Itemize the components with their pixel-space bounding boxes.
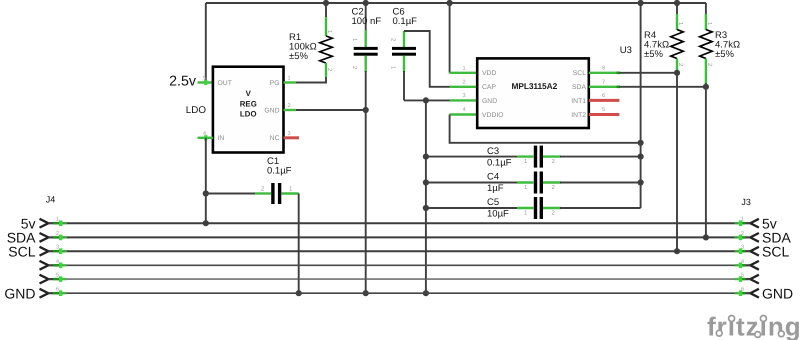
connector J3 pin 1 (735, 217, 759, 228)
pin LDO GND (green) (284, 109, 297, 111)
pin U3 GND (green) (450, 99, 478, 101)
svg-text:4: 4 (741, 259, 744, 265)
svg-text:0.1µF: 0.1µF (267, 166, 292, 177)
pin LDO PG (green) (284, 81, 297, 83)
junction 2.5V rail / VDD riser (447, 0, 453, 6)
junction 2.5V rail / column (638, 0, 644, 6)
svg-text:3: 3 (741, 245, 744, 251)
wire R4/SCL down to SCL bus (676, 73, 678, 251)
svg-text:1: 1 (741, 217, 744, 223)
svg-text:J3: J3 (741, 197, 751, 207)
junction SDA bus (703, 234, 709, 240)
pin LDO NC (red, unconnected) (284, 136, 300, 139)
svg-text:GND: GND (762, 285, 793, 301)
svg-text:5: 5 (602, 107, 605, 113)
wire LDO OUT to 2.5V rail (205, 3, 207, 83)
svg-text:3: 3 (463, 93, 466, 99)
resistor R1 (320, 3, 333, 77)
wire C6 bottom to GND net (403, 71, 405, 100)
junction C4 right (638, 179, 644, 185)
svg-text:4: 4 (463, 107, 466, 113)
pin U3 INT2 (red, unconnected) (589, 113, 620, 116)
wire SCL to R4 (619, 72, 677, 74)
svg-text:5: 5 (203, 76, 206, 82)
label C2 100 nF (352, 7, 382, 28)
junction SCL / R4 (674, 70, 680, 76)
U3 inner pin labels (482, 70, 586, 119)
pin U3 SDA (green) (589, 86, 620, 88)
wire R3/SDA down to SDA bus (705, 83, 707, 237)
svg-text:SCL: SCL (573, 70, 586, 77)
svg-text:GND: GND (482, 98, 497, 105)
svg-text:6: 6 (602, 93, 605, 99)
junction LDO GND / C2 (363, 107, 369, 113)
connector J4 pin 4 (40, 259, 68, 270)
wire 2.5V rail to chip VDD (449, 3, 451, 73)
label C6 0.1uF (393, 7, 418, 28)
capacitor C3 (426, 146, 641, 168)
svg-text:C5: C5 (487, 197, 499, 208)
capacitor C5 (426, 197, 641, 219)
wire SDA bus (62, 236, 739, 238)
label C3 0.1&#181;F (487, 146, 512, 169)
pin U3 INT1 (red, unconnected) (589, 99, 620, 102)
svg-text:2.5v: 2.5v (169, 73, 197, 89)
LDO inner pin labels (218, 80, 280, 142)
svg-text:1µF: 1µF (487, 183, 504, 194)
junction GND bus / C2 (363, 290, 369, 296)
junction GND bus / GND column (423, 290, 429, 296)
label C1 0.1uF (267, 156, 292, 177)
svg-text:SCL: SCL (8, 243, 35, 259)
connector J3 pin 4 (735, 259, 759, 270)
wire SCL bus (62, 250, 739, 252)
junction SCL bus (674, 248, 680, 254)
wire PG to R1 bottom (296, 76, 326, 83)
svg-text:REG: REG (240, 99, 257, 108)
pin U3 VDDIO (green) (450, 113, 478, 115)
svg-text:INT1: INT1 (571, 98, 586, 105)
svg-text:INT2: INT2 (571, 112, 586, 119)
label R1 100k&#937; &#177;5% (289, 32, 317, 62)
svg-text:OUT: OUT (218, 80, 232, 87)
junction C4 left (423, 179, 429, 185)
junction 2.5V rail / R4 (674, 0, 680, 6)
pin LDO IN (green) (198, 137, 213, 139)
svg-text:100 nF: 100 nF (352, 16, 382, 27)
svg-text:5: 5 (56, 273, 59, 279)
junction C3 right (638, 154, 644, 160)
svg-text:C4: C4 (487, 172, 499, 183)
junction 2.5V rail / C2 (363, 0, 369, 6)
connector J3 pin 5 (735, 273, 759, 284)
svg-text:0.1µF: 0.1µF (393, 16, 418, 27)
svg-text:IN: IN (218, 135, 225, 142)
wire GND bus (62, 292, 739, 294)
J3 / bus labels right (762, 215, 793, 301)
connector J3 pin 2 (735, 231, 759, 242)
svg-text:±5%: ±5% (644, 49, 663, 60)
svg-text:U3: U3 (620, 45, 632, 56)
pin U3 VDD (green) (450, 72, 478, 74)
J4 / bus labels left (4, 215, 36, 301)
connector J3 pin 3 (735, 245, 759, 256)
connector J4 pin 3 (40, 245, 68, 256)
voltage regulator U-LDO body (213, 67, 284, 153)
label V REG LDO (240, 89, 257, 118)
junction C5 left (423, 205, 429, 211)
wire C1 right down to GND bus (298, 194, 300, 294)
pin U3 SCL (green) (589, 72, 620, 74)
svg-text:NC: NC (270, 135, 280, 142)
svg-text:6: 6 (741, 287, 744, 293)
connector J4 pin 5 (40, 273, 68, 284)
svg-text:1: 1 (288, 76, 291, 82)
resistor R3 (700, 3, 713, 84)
svg-text:2: 2 (463, 80, 466, 86)
junction 5v bus / LDO IN (203, 220, 209, 226)
connector J4 pin 6 (40, 287, 68, 298)
svg-text:LDO: LDO (240, 110, 257, 119)
junction GND net / bypass column (423, 97, 429, 103)
svg-text:2: 2 (741, 231, 744, 237)
svg-text:4: 4 (56, 259, 59, 265)
junction 2.5V rail / R1 (323, 0, 329, 6)
svg-text:SDA: SDA (572, 84, 586, 91)
capacitor C4 (426, 172, 641, 194)
wire bus wire 4 (62, 264, 739, 266)
svg-text:8: 8 (602, 66, 605, 72)
svg-text:1: 1 (463, 66, 466, 72)
pin LDO OUT (green) (198, 81, 213, 83)
svg-text:5: 5 (741, 273, 744, 279)
svg-text:1: 1 (56, 217, 59, 223)
svg-text:C3: C3 (487, 146, 499, 157)
svg-text:CAP: CAP (482, 84, 496, 91)
junction VDDIO / 2.5V column (638, 140, 644, 146)
wire LDO IN down to 5v bus (205, 138, 207, 223)
svg-text:2: 2 (288, 103, 291, 109)
svg-text:J4: J4 (46, 194, 56, 204)
svg-text:PG: PG (270, 80, 280, 87)
wire 5v bus (62, 222, 739, 224)
junction GND bus / C1 (296, 290, 302, 296)
fritzing watermark (707, 312, 800, 340)
svg-text:7: 7 (602, 80, 605, 86)
svg-text:V: V (246, 89, 252, 98)
label C5 10&#181;F (487, 197, 509, 220)
svg-text:LDO: LDO (186, 105, 207, 116)
LDO pin numbers (203, 76, 291, 137)
svg-text:0.1µF: 0.1µF (487, 157, 512, 168)
resistor R4 (671, 3, 684, 73)
svg-text:2: 2 (56, 231, 59, 237)
svg-text:VDD: VDD (482, 70, 496, 77)
capacitor C6 (390, 31, 417, 72)
wire C6 top to chip CAP pin (404, 31, 451, 87)
junction C1 left (203, 190, 209, 196)
wire 2.5V top rail (206, 2, 706, 4)
label C4 1&#181;F (487, 172, 504, 195)
svg-text:SCL: SCL (762, 243, 789, 259)
svg-text:VDDIO: VDDIO (482, 112, 504, 119)
wire LDO GND to C2 bottom (296, 109, 366, 111)
wire bus wire 5 (62, 278, 739, 280)
svg-text:3: 3 (56, 245, 59, 251)
U3 pin numbers (463, 66, 606, 114)
svg-text:±5%: ±5% (715, 49, 734, 60)
svg-text:±5%: ±5% (289, 51, 308, 62)
label R3 4.7k&#937; &#177;5% (715, 30, 740, 60)
IC U3 MPL3115A2 body (477, 58, 589, 128)
svg-text:10µF: 10µF (487, 209, 509, 220)
label R4 4.7k&#937; &#177;5% (644, 30, 669, 60)
junction C3 left (423, 154, 429, 160)
wire VDDIO to 2.5V column (450, 115, 641, 143)
capacitor C1 (206, 183, 299, 204)
junction SDA / R3 (703, 84, 709, 90)
connector J3 pin 6 (735, 287, 759, 298)
wire GND net to chip GND pin (404, 99, 451, 101)
connector J4 pin 2 (40, 231, 68, 242)
svg-text:GND: GND (4, 285, 35, 301)
svg-text:3: 3 (288, 131, 291, 137)
svg-text:6: 6 (56, 287, 59, 293)
connector J4 pin 1 (40, 217, 68, 228)
svg-text:MPL3115A2: MPL3115A2 (511, 81, 557, 91)
capacitor C2 (351, 3, 378, 293)
wire 2.5V column (rail to C5 right) (640, 3, 642, 208)
wire GND column down to GND bus (425, 100, 427, 293)
svg-text:GND: GND (264, 107, 279, 114)
wire SDA to R3 (619, 86, 706, 88)
pin U3 CAP (green) (450, 86, 478, 88)
